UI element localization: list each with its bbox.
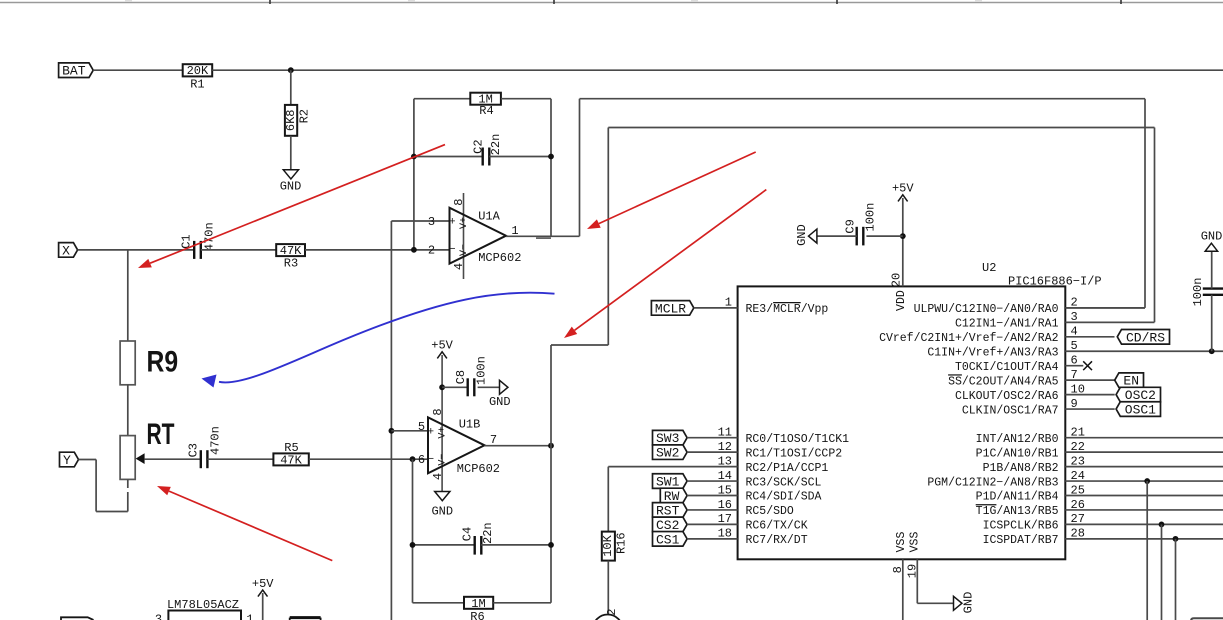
net flag Y bbox=[60, 452, 79, 468]
capacitor C1 bbox=[179, 222, 216, 259]
net flag OSC1 bbox=[1116, 402, 1160, 418]
wire net AN1 step horizontal bbox=[551, 344, 608, 346]
svg-text:−: − bbox=[427, 454, 434, 466]
svg-text:CLKOUT/OSC2/RA6: CLKOUT/OSC2/RA6 bbox=[955, 390, 1059, 403]
net flag CS1 bbox=[653, 532, 688, 548]
resistor R4 bbox=[470, 93, 501, 118]
svg-text:R4: R4 bbox=[479, 104, 493, 118]
capacitor C4 bbox=[461, 522, 495, 554]
wire X branch down to R9 bbox=[127, 250, 129, 341]
svg-text:MCLR: MCLR bbox=[655, 301, 686, 316]
net flag SW1 bbox=[653, 474, 688, 490]
wire Y to corner bbox=[79, 459, 97, 461]
wire regulator +5V bbox=[262, 593, 264, 620]
svg-text:2: 2 bbox=[428, 243, 435, 257]
wire U1B pin5 horizontal bbox=[391, 430, 428, 432]
op-amp U1B body bbox=[427, 417, 484, 473]
svg-text:SW2: SW2 bbox=[656, 446, 679, 461]
wire junction to R2 bbox=[290, 70, 292, 105]
junction U1A pin2 node bbox=[411, 247, 417, 253]
wire pin5 AN3 net bbox=[1065, 350, 1223, 352]
svg-text:P1B/AN8/RB2: P1B/AN8/RB2 bbox=[983, 462, 1059, 475]
connector pin circle bbox=[593, 615, 623, 620]
svg-text:R3: R3 bbox=[284, 256, 298, 270]
svg-text:ICSPCLK/RB6: ICSPCLK/RB6 bbox=[983, 520, 1059, 533]
svg-text:C8: C8 bbox=[454, 370, 468, 384]
U1A value MCP602 bbox=[478, 251, 521, 265]
wire C8 to GND bbox=[478, 386, 500, 388]
wire Y vertical bbox=[95, 460, 97, 512]
svg-text:VSS: VSS bbox=[909, 532, 922, 553]
ground left of C9 bbox=[795, 224, 817, 246]
wire RB6 branch down bbox=[1161, 524, 1163, 620]
svg-text:100n: 100n bbox=[1191, 278, 1205, 307]
U1B value MCP602 bbox=[457, 462, 500, 476]
svg-text:3: 3 bbox=[155, 613, 162, 620]
net flag SW3 bbox=[653, 430, 688, 446]
junction C9 node bbox=[900, 233, 906, 239]
+5V at regulator output bbox=[252, 577, 274, 597]
svg-text:22n: 22n bbox=[489, 134, 503, 156]
U1A pin number 4 bbox=[452, 263, 466, 270]
svg-text:RC4/SDI/SDA: RC4/SDI/SDA bbox=[746, 491, 822, 504]
svg-text:EN: EN bbox=[1123, 374, 1139, 389]
net flag OSC2 bbox=[1116, 387, 1160, 403]
svg-text:RC5/SDO: RC5/SDO bbox=[746, 505, 794, 518]
svg-text:V+: V+ bbox=[437, 427, 448, 439]
junction C4 left bbox=[410, 542, 416, 548]
capacitor block bottom middle bbox=[290, 618, 321, 620]
svg-text:V−: V− bbox=[459, 244, 470, 256]
svg-text:GND: GND bbox=[795, 224, 809, 246]
ground above AN3 cap bbox=[1201, 230, 1223, 252]
svg-text:+: + bbox=[449, 217, 456, 229]
svg-text:+5V: +5V bbox=[252, 577, 274, 591]
wire RW to U2 bbox=[687, 495, 738, 497]
svg-text:20: 20 bbox=[889, 273, 903, 287]
svg-text:+: + bbox=[427, 426, 434, 438]
svg-text:GND: GND bbox=[431, 505, 453, 519]
junction +5V C8 bbox=[439, 384, 445, 390]
svg-text:P1D/AN11/RB4: P1D/AN11/RB4 bbox=[976, 491, 1059, 504]
svg-text:47K: 47K bbox=[280, 453, 302, 467]
svg-text:10K: 10K bbox=[601, 534, 615, 556]
svg-text:RC2/P1A/CCP1: RC2/P1A/CCP1 bbox=[746, 462, 829, 475]
svg-text:RT: RT bbox=[147, 418, 175, 451]
svg-text:3: 3 bbox=[428, 215, 435, 229]
resistor R9 bbox=[120, 341, 135, 385]
svg-text:RC6/TX/CK: RC6/TX/CK bbox=[746, 520, 808, 533]
junction U1B pin6 node bbox=[410, 456, 416, 462]
svg-text:4: 4 bbox=[431, 473, 445, 480]
svg-text:INT/AN12/RB0: INT/AN12/RB0 bbox=[976, 433, 1059, 446]
resistor R6 bbox=[464, 597, 493, 620]
svg-text:Y: Y bbox=[63, 453, 71, 468]
battery flag bottom left bbox=[61, 617, 94, 620]
U2 pin names bbox=[746, 303, 1059, 547]
svg-text:MCP602: MCP602 bbox=[457, 462, 500, 476]
svg-text:100n: 100n bbox=[474, 356, 488, 385]
wire pin7 to EN bbox=[1065, 379, 1114, 381]
svg-text:MCP602: MCP602 bbox=[478, 251, 521, 265]
wire MCLR to pin 1 bbox=[694, 307, 738, 309]
wire R16 vertical bbox=[607, 467, 609, 532]
junction BAT/R2 bbox=[288, 67, 294, 73]
resistor R2 bbox=[284, 105, 312, 136]
svg-text:X: X bbox=[62, 243, 70, 258]
svg-text:GND: GND bbox=[280, 180, 302, 194]
wire RB7 branch down bbox=[1175, 539, 1177, 620]
svg-text:C3: C3 bbox=[187, 443, 201, 457]
svg-text:2: 2 bbox=[605, 609, 619, 616]
potentiometer RT body bbox=[120, 436, 135, 480]
U1A pin number 8 bbox=[452, 199, 466, 206]
U1B pin number 5 bbox=[418, 420, 425, 434]
wire pin3 stub bbox=[1065, 321, 1154, 323]
IC U2 box bbox=[738, 286, 1066, 559]
+5V above U2 bbox=[892, 182, 914, 202]
svg-text:6: 6 bbox=[418, 453, 425, 467]
net flag CS2 bbox=[653, 517, 688, 533]
svg-text:GND: GND bbox=[962, 592, 976, 614]
connector pin number 2 bbox=[605, 609, 619, 616]
wire C2 row left bbox=[414, 156, 483, 158]
capacitor C2 bbox=[471, 134, 503, 166]
svg-text:20K: 20K bbox=[187, 64, 209, 78]
svg-text:VDD: VDD bbox=[895, 290, 908, 311]
svg-text:22n: 22n bbox=[481, 522, 495, 544]
svg-text:RC1/T1OSI/CCP2: RC1/T1OSI/CCP2 bbox=[746, 447, 843, 460]
svg-text:C4: C4 bbox=[461, 527, 475, 541]
label R9 bbox=[147, 346, 179, 379]
svg-text:CVref/C2IN1+/Vref−/AN2/RA2: CVref/C2IN1+/Vref−/AN2/RA2 bbox=[879, 332, 1059, 345]
svg-text:T1G/AN13/RB5: T1G/AN13/RB5 bbox=[976, 505, 1059, 518]
wire R6 row left bbox=[413, 602, 465, 604]
resistor R5 bbox=[273, 441, 308, 467]
wire +5V node to C8 bbox=[442, 386, 468, 388]
U1A pin number 1 bbox=[511, 224, 518, 238]
wire U1A output jog bbox=[536, 237, 551, 239]
svg-text:SW1: SW1 bbox=[656, 475, 680, 490]
wire net AN1 horizontal bbox=[608, 127, 1154, 129]
svg-text:RST: RST bbox=[656, 503, 680, 518]
svg-text:470n: 470n bbox=[208, 426, 222, 455]
svg-text:RC7/RX/DT: RC7/RX/DT bbox=[746, 534, 808, 547]
red annotation arrow to X node bbox=[138, 145, 445, 268]
wire net AN0 vertical up bbox=[579, 99, 581, 237]
svg-text:4: 4 bbox=[452, 263, 466, 270]
wire U1B loop right vertical bbox=[550, 345, 552, 603]
svg-text:SS/C2OUT/AN4/RA5: SS/C2OUT/AN4/RA5 bbox=[948, 375, 1059, 388]
svg-text:R2: R2 bbox=[298, 109, 312, 123]
wire RB6 to right edge bbox=[1065, 523, 1223, 525]
svg-text:CS1: CS1 bbox=[656, 532, 680, 547]
wire pin9 to OSC1 bbox=[1065, 408, 1114, 410]
junction C4 right bbox=[548, 542, 554, 548]
wire R4 row left bbox=[414, 98, 470, 100]
wire SW3 to U2 bbox=[687, 437, 738, 439]
junction RB7 net bbox=[1173, 536, 1179, 542]
wire pin10 to OSC2 bbox=[1065, 394, 1114, 396]
svg-text:P1C/AN10/RB1: P1C/AN10/RB1 bbox=[976, 447, 1059, 460]
svg-text:ULPWU/C12IN0−/AN0/RA0: ULPWU/C12IN0−/AN0/RA0 bbox=[914, 303, 1059, 316]
net flag MCLR bbox=[651, 301, 693, 317]
svg-text:R5: R5 bbox=[284, 441, 298, 455]
wire R3 to U1A pin2 bbox=[305, 249, 450, 251]
svg-text:RW: RW bbox=[664, 489, 680, 504]
wire R9 to RT bbox=[127, 385, 129, 436]
wire RB5 to right edge bbox=[1065, 509, 1223, 511]
wire net AN1 vertical up bbox=[607, 128, 609, 346]
svg-text:C12IN1−/AN1/RA1: C12IN1−/AN1/RA1 bbox=[955, 318, 1059, 331]
wire RB7 to right edge bbox=[1065, 538, 1223, 540]
wire RST to U2 bbox=[687, 509, 738, 511]
red annotation arrow to U1A output bbox=[587, 152, 756, 229]
junction U1B output bbox=[548, 443, 554, 449]
wire R2 to GND bbox=[290, 136, 292, 170]
svg-text:CLKIN/OSC1/RA7: CLKIN/OSC1/RA7 bbox=[962, 404, 1059, 417]
wire RB4 to right edge bbox=[1065, 495, 1223, 497]
svg-text:PIC16F886−I/P: PIC16F886−I/P bbox=[1008, 275, 1102, 289]
regulator pin 3 bbox=[155, 613, 162, 620]
svg-text:5: 5 bbox=[418, 420, 425, 434]
svg-text:8: 8 bbox=[452, 199, 466, 206]
wire BAT to R1 bbox=[93, 69, 183, 71]
U1B pin number 4 bbox=[431, 473, 445, 480]
ground below R2 bbox=[280, 170, 302, 194]
wire +5V down through U1B bbox=[441, 355, 443, 492]
wire CS1 to U2 bbox=[687, 538, 738, 540]
svg-text:U2: U2 bbox=[982, 261, 996, 275]
wire C1 to R3 bbox=[201, 249, 276, 251]
wire RB1 to right edge bbox=[1065, 451, 1223, 453]
svg-text:VSS: VSS bbox=[895, 532, 908, 553]
net flag RST bbox=[653, 503, 688, 519]
junction C2 right bbox=[548, 154, 554, 160]
red annotation arrow to AN1 step bbox=[564, 190, 766, 338]
wire R4 row right bbox=[501, 98, 551, 100]
svg-text:ICSPDAT/RB7: ICSPDAT/RB7 bbox=[983, 534, 1059, 547]
svg-text:R16: R16 bbox=[614, 532, 628, 554]
wire pin13 to R16 corner bbox=[608, 466, 737, 468]
wire feedback right vertical bbox=[550, 99, 552, 237]
svg-text:−: − bbox=[449, 244, 456, 256]
ground right of C8 bbox=[489, 380, 511, 409]
wire X to C1 bbox=[78, 249, 195, 251]
svg-text:CD/RS: CD/RS bbox=[1126, 330, 1165, 345]
capacitor C8 bbox=[454, 356, 488, 396]
svg-text:GND: GND bbox=[1201, 230, 1223, 244]
svg-text:V−: V− bbox=[437, 454, 448, 466]
wire feedback left vertical bbox=[413, 99, 415, 250]
wire RB2 to right edge bbox=[1065, 466, 1223, 468]
net flag EN bbox=[1115, 373, 1144, 389]
wire C4 row left bbox=[413, 544, 475, 546]
wire +5V to VDD pin 20 bbox=[902, 198, 904, 286]
wire RT bottom pin bbox=[127, 479, 129, 511]
svg-text:R6: R6 bbox=[470, 610, 484, 620]
svg-text:BAT: BAT bbox=[62, 64, 86, 79]
resistor R3 bbox=[276, 244, 305, 270]
capacitor C9 bbox=[844, 203, 878, 246]
blue annotation curve to R9 bbox=[202, 293, 555, 388]
wire R6 row right bbox=[493, 602, 551, 604]
net flag SW2 bbox=[653, 445, 688, 461]
wire pin4 to CD/RS bbox=[1065, 336, 1114, 338]
net flag RW bbox=[660, 488, 687, 504]
U2 VSS texts bbox=[895, 532, 922, 553]
capacitor C3 bbox=[187, 426, 223, 468]
svg-text:T0CKI/C1OUT/RA4: T0CKI/C1OUT/RA4 bbox=[955, 361, 1059, 374]
capacitor on AN3 net bbox=[1191, 278, 1223, 307]
junction AN3 cap bbox=[1209, 348, 1215, 354]
resistor R16 bbox=[601, 532, 628, 561]
regulator pin 1 bbox=[246, 613, 253, 620]
wire U1A output bbox=[506, 235, 580, 237]
wire R5 to U1B pin6 bbox=[309, 458, 428, 460]
U1B pin number 7 bbox=[490, 433, 497, 447]
wire net AN0 horizontal bbox=[580, 98, 1146, 100]
svg-text:PGM/C12IN2−/AN8/RB3: PGM/C12IN2−/AN8/RB3 bbox=[927, 476, 1058, 489]
svg-text:8: 8 bbox=[431, 408, 445, 415]
wire SW2 to U2 bbox=[687, 451, 738, 453]
wire RB0 to right edge bbox=[1065, 437, 1223, 439]
junction RB6 net bbox=[1159, 522, 1165, 528]
svg-text:C9: C9 bbox=[844, 219, 858, 233]
net flag BAT bbox=[59, 63, 94, 79]
wire net AN1 down to pin3 bbox=[1154, 128, 1156, 323]
wire C9 to GND bbox=[817, 235, 857, 237]
svg-text:1: 1 bbox=[246, 613, 253, 620]
wire RB3 branch down bbox=[1146, 481, 1148, 620]
ground right of VSS bbox=[954, 592, 976, 614]
svg-text:C1IN+/Vref+/AN3/RA3: C1IN+/Vref+/AN3/RA3 bbox=[927, 346, 1058, 359]
label RT bbox=[147, 418, 175, 451]
svg-text:OSC1: OSC1 bbox=[1125, 403, 1156, 418]
U1B pin number 8 bbox=[431, 408, 445, 415]
+5V above U1B bbox=[431, 339, 453, 359]
regulator U3 box bbox=[168, 611, 241, 620]
sheet border frame bbox=[0, 0, 1223, 4]
U1B label bbox=[459, 418, 481, 432]
svg-text:R1: R1 bbox=[190, 78, 204, 92]
svg-text:100n: 100n bbox=[863, 203, 877, 232]
svg-text:CS2: CS2 bbox=[656, 518, 679, 533]
net flag CD/RS bbox=[1117, 330, 1169, 346]
svg-text:1M: 1M bbox=[471, 597, 485, 611]
U2 reference bbox=[982, 261, 996, 275]
op-amp U1A power stub bbox=[463, 193, 465, 279]
wire net AN0 down to pin2 bbox=[1144, 99, 1146, 308]
svg-text:OSC2: OSC2 bbox=[1125, 388, 1156, 403]
U2 value bbox=[1008, 275, 1102, 289]
wire SW1 to U2 bbox=[687, 480, 738, 482]
svg-text:GND: GND bbox=[489, 395, 511, 409]
svg-text:R9: R9 bbox=[147, 346, 179, 379]
svg-text:V+: V+ bbox=[459, 217, 470, 229]
regulator U3 value bbox=[167, 598, 239, 612]
wire pin3-pin5 long vertical bbox=[390, 221, 392, 620]
U1A pin number 2 bbox=[428, 243, 435, 257]
ground below U1B bbox=[431, 492, 453, 519]
wire RB3 to right edge bbox=[1065, 480, 1223, 482]
junction RB3 net bbox=[1144, 478, 1150, 484]
junction U1B pin5 node bbox=[389, 428, 395, 434]
wire VSS to GND arrow bbox=[917, 602, 953, 604]
LCD connector corner bottom right bbox=[1191, 618, 1223, 620]
svg-text:RC0/T1OSO/T1CK1: RC0/T1OSO/T1CK1 bbox=[746, 433, 850, 446]
wire wiper to C3 bbox=[144, 458, 201, 460]
wire C3 to R5 bbox=[207, 458, 273, 460]
red annotation arrow to RT wiper bbox=[157, 486, 332, 561]
U2 VDD text bbox=[895, 290, 908, 311]
svg-text:RE3/MCLR/Vpp: RE3/MCLR/Vpp bbox=[746, 303, 829, 316]
resistor R1 bbox=[183, 64, 213, 91]
wire net AN1 into pin 3 bbox=[1065, 321, 1154, 323]
U2 pin numbers bbox=[718, 273, 1085, 578]
wire AN3 cap up to GND bbox=[1211, 251, 1213, 288]
U1A pin number 3 bbox=[428, 215, 435, 229]
U1A label bbox=[478, 209, 500, 223]
wire RT bottom to Y corner bbox=[96, 511, 128, 513]
svg-text:+5V: +5V bbox=[431, 339, 453, 353]
svg-text:U1A: U1A bbox=[478, 209, 500, 223]
svg-text:U1B: U1B bbox=[459, 418, 481, 432]
svg-text:6K8: 6K8 bbox=[284, 109, 298, 131]
junction C2 left bbox=[411, 154, 417, 160]
RT wiper arrow bbox=[136, 453, 145, 464]
wire pin2 stub bbox=[1065, 307, 1145, 309]
wire U1A pin3 horizontal bbox=[391, 220, 449, 222]
wire U1B loop left vertical bbox=[412, 459, 414, 603]
svg-text:+5V: +5V bbox=[892, 182, 914, 196]
wire R16 to connector bbox=[607, 561, 609, 615]
wire R1 to right edge (BAT net) bbox=[212, 69, 1223, 71]
wire U1B output bbox=[485, 445, 552, 447]
net flag X bbox=[59, 243, 78, 259]
wire net AN0 into pin 2 bbox=[1065, 307, 1145, 309]
wire C2 row right bbox=[489, 156, 551, 158]
wire VSS pin19 down bbox=[916, 559, 918, 603]
wire C9 right bbox=[866, 235, 902, 237]
wire C4 row right bbox=[481, 544, 551, 546]
wire pin6 stub bbox=[1065, 365, 1083, 367]
svg-text:C2: C2 bbox=[471, 139, 485, 153]
wire VSS pin8 down bbox=[902, 559, 904, 620]
wire AN3 cap down bbox=[1211, 295, 1213, 351]
svg-text:SW3: SW3 bbox=[656, 431, 679, 446]
U1B pin number 6 bbox=[418, 453, 425, 467]
no-connect X on RA4 bbox=[1083, 361, 1092, 370]
wire CS2 to U2 bbox=[687, 523, 738, 525]
op-amp U1A body bbox=[449, 208, 506, 264]
svg-text:RC3/SCK/SCL: RC3/SCK/SCL bbox=[746, 476, 822, 489]
